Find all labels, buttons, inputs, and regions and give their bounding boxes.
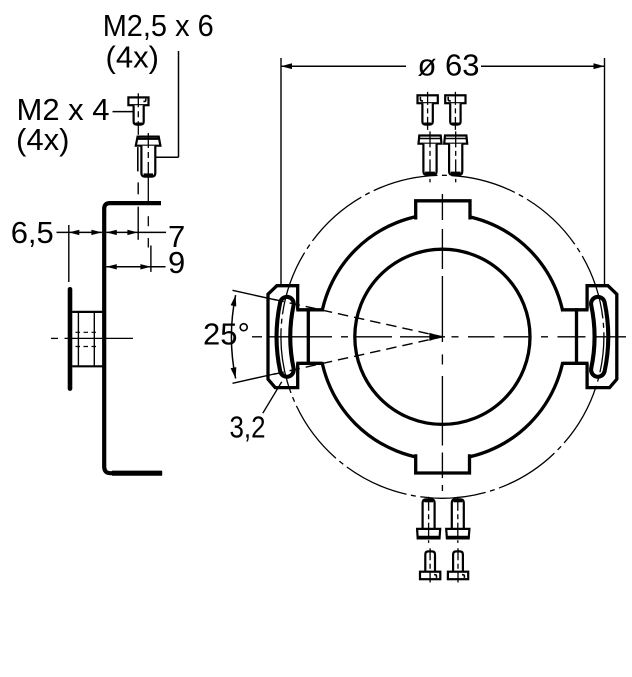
- svg-text:M2,5 x 6: M2,5 x 6: [103, 8, 214, 43]
- svg-text:(4x): (4x): [16, 122, 69, 157]
- svg-text:3,2: 3,2: [230, 410, 266, 445]
- svg-text:6,5: 6,5: [11, 215, 54, 250]
- svg-text:ø 63: ø 63: [418, 47, 480, 82]
- svg-text:(4x): (4x): [106, 40, 159, 75]
- svg-text:25°: 25°: [203, 317, 250, 352]
- svg-text:9: 9: [168, 245, 185, 280]
